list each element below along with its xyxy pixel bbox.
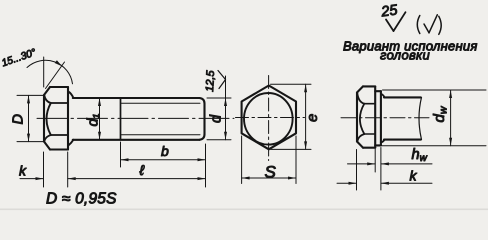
- svg-text:d₁: d₁: [86, 113, 102, 126]
- hexagon: [242, 86, 296, 150]
- variant facet lines: [364, 104, 375, 134]
- under-head fillets: [68, 91, 73, 146]
- svg-text:D: D: [11, 114, 27, 124]
- dimension k (left view): [20, 152, 68, 187]
- svg-text:головки: головки: [380, 48, 430, 63]
- roughness symbol in parentheses: [417, 15, 441, 35]
- thread root lines: [121, 103, 201, 135]
- variant chamfer arcs: [357, 93, 364, 141]
- svg-text:k: k: [410, 168, 418, 184]
- scan streak bottom: [0, 209, 488, 211]
- svg-text:k: k: [19, 163, 27, 179]
- chamfer angle 15...30 deg: [27, 57, 73, 89]
- roughness 12,5 on end: [218, 71, 226, 89]
- svg-text:12,5: 12,5: [204, 69, 217, 92]
- dimension e: [271, 84, 312, 149]
- dimension D: [17, 95, 44, 141]
- dimension b: [121, 142, 206, 167]
- dimension d1: [99, 98, 101, 140]
- variant shank edges: [384, 97, 421, 139]
- shank top and bottom edges: [73, 98, 200, 140]
- shank break line: [419, 97, 422, 139]
- centerline variant: [341, 117, 429, 119]
- dimension k (variant): [337, 150, 432, 191]
- roughness symbol 25: [386, 12, 406, 31]
- washer face: [375, 91, 381, 145]
- centerline bolt axis: [37, 117, 234, 119]
- washer-shank fillets: [381, 94, 385, 143]
- variant head outline: [357, 86, 375, 147]
- dimension d: [207, 76, 231, 140]
- chamfer circle: [244, 93, 293, 145]
- svg-text:b: b: [161, 143, 169, 159]
- svg-text:ℓ: ℓ: [139, 162, 145, 178]
- dimension S: [242, 136, 296, 184]
- dimension hw: [348, 148, 433, 191]
- svg-text:d: d: [209, 114, 225, 123]
- bolt head outline: [44, 87, 68, 150]
- thread start line: [120, 98, 122, 140]
- head facet lines: [51, 103, 68, 135]
- svg-text:e: e: [304, 114, 321, 122]
- dimension l: [68, 144, 206, 187]
- head chamfer arcs: [44, 95, 51, 141]
- svg-text:S: S: [265, 163, 277, 182]
- dimension dw: [382, 90, 486, 146]
- svg-text:D ≈ 0,95S: D ≈ 0,95S: [46, 191, 117, 208]
- centerlines hexagon: [236, 76, 305, 161]
- svg-text:25: 25: [379, 2, 399, 20]
- bolt end face with chamfer: [200, 98, 205, 140]
